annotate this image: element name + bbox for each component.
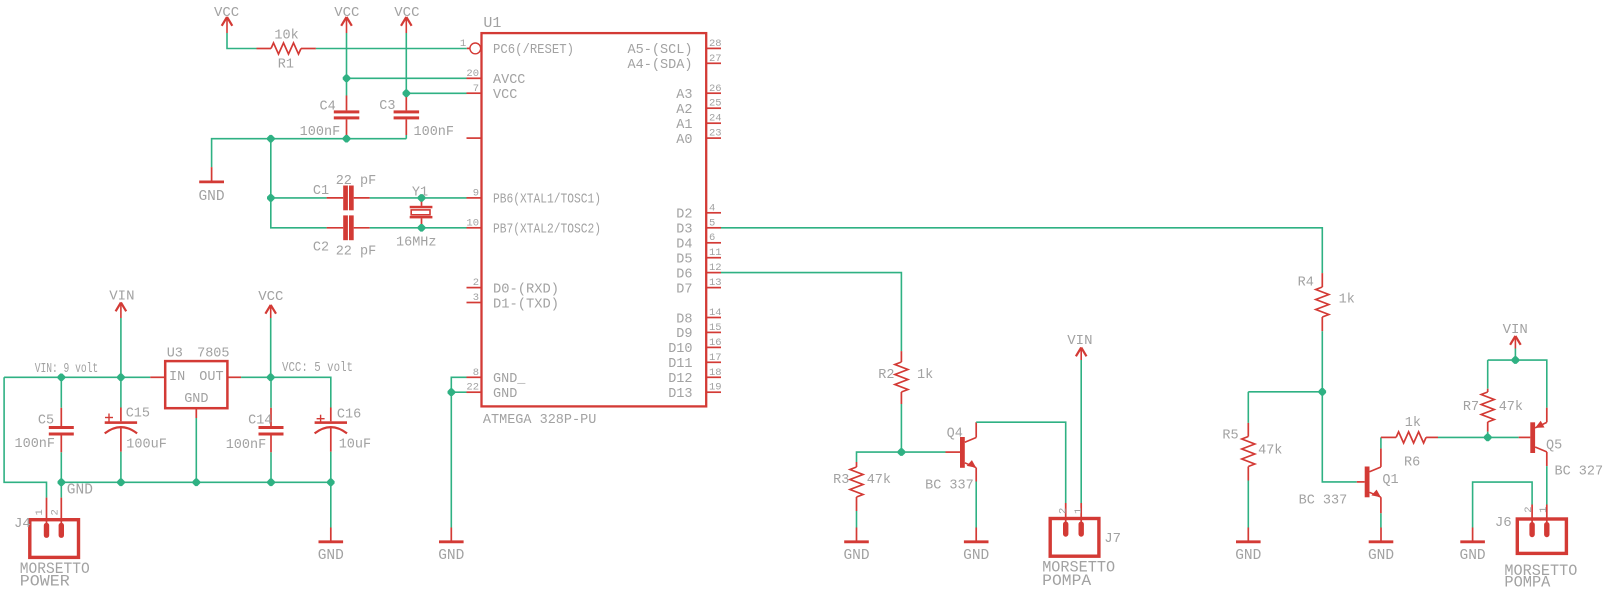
svg-text:PC6(/RESET): PC6(/RESET) (493, 43, 574, 58)
svg-text:VCC: VCC (334, 5, 359, 21)
svg-text:POWER: POWER (20, 573, 70, 591)
svg-text:C14: C14 (248, 414, 272, 429)
svg-text:D2: D2 (676, 208, 692, 223)
svg-text:C1: C1 (313, 184, 329, 199)
svg-text:R2: R2 (878, 368, 894, 383)
svg-text:GND_: GND_ (493, 372, 526, 387)
svg-text:D7: D7 (676, 282, 692, 297)
svg-text:GND: GND (843, 548, 869, 564)
svg-text:20: 20 (466, 68, 479, 80)
svg-text:PB6(XTAL1/TOSC1): PB6(XTAL1/TOSC1) (493, 193, 601, 208)
svg-text:25: 25 (709, 98, 722, 110)
svg-text:12: 12 (709, 262, 722, 274)
svg-text:GND: GND (67, 483, 93, 499)
svg-text:100nF: 100nF (414, 125, 455, 140)
svg-text:C15: C15 (126, 407, 150, 422)
svg-text:7805: 7805 (197, 347, 229, 362)
svg-text:GND: GND (1460, 548, 1486, 564)
svg-text:17: 17 (709, 352, 722, 364)
svg-text:10k: 10k (274, 29, 298, 44)
svg-text:1k: 1k (1405, 416, 1421, 431)
svg-text:VCC: VCC (493, 88, 517, 103)
svg-text:47k: 47k (1258, 444, 1282, 459)
svg-text:VIN: VIN (1503, 322, 1528, 338)
svg-text:10uF: 10uF (339, 437, 371, 452)
svg-text:2: 2 (49, 509, 61, 515)
svg-text:GND: GND (198, 189, 224, 205)
svg-text:Q5: Q5 (1546, 438, 1562, 453)
svg-text:BC 337: BC 337 (1299, 494, 1348, 509)
svg-text:VCC: VCC (394, 5, 419, 21)
svg-text:1: 1 (34, 509, 46, 515)
svg-text:VIN: VIN (1067, 333, 1092, 349)
svg-text:6: 6 (709, 232, 715, 244)
svg-text:D13: D13 (668, 387, 692, 402)
svg-text:8: 8 (473, 367, 479, 379)
svg-text:GND: GND (963, 548, 989, 564)
svg-text:10: 10 (466, 217, 479, 229)
svg-text:4: 4 (709, 202, 715, 214)
svg-text:OUT: OUT (199, 370, 223, 385)
svg-text:GND: GND (318, 548, 344, 564)
svg-text:D1-(TXD): D1-(TXD) (493, 297, 559, 312)
svg-text:2: 2 (1057, 508, 1069, 514)
svg-text:Q1: Q1 (1382, 473, 1398, 488)
svg-text:1: 1 (1073, 508, 1085, 514)
svg-text:VCC: VCC (258, 289, 283, 305)
svg-text:C4: C4 (319, 100, 335, 115)
svg-text:GND: GND (184, 392, 208, 407)
svg-text:A0: A0 (676, 133, 692, 148)
svg-text:VIN: VIN (109, 289, 134, 305)
svg-text:J7: J7 (1104, 531, 1121, 547)
svg-text:D5: D5 (676, 253, 692, 268)
svg-text:2: 2 (473, 277, 479, 289)
svg-text:VCC: VCC (214, 5, 239, 21)
svg-text:D4: D4 (676, 238, 692, 253)
svg-text:C5: C5 (38, 414, 54, 429)
svg-text:J6: J6 (1495, 515, 1512, 531)
svg-text:R4: R4 (1298, 276, 1314, 291)
svg-text:R1: R1 (278, 58, 294, 73)
svg-text:23: 23 (709, 128, 722, 140)
svg-text:D6: D6 (676, 267, 692, 282)
svg-text:R7: R7 (1463, 400, 1479, 415)
svg-text:16: 16 (709, 337, 722, 349)
svg-text:GND: GND (1235, 548, 1261, 564)
svg-text:A5-(SCL): A5-(SCL) (628, 43, 693, 58)
svg-text:D9: D9 (676, 327, 692, 342)
svg-text:14: 14 (709, 307, 722, 319)
svg-text:POMPA: POMPA (1504, 574, 1551, 592)
svg-text:D8: D8 (676, 312, 692, 327)
svg-text:U3: U3 (167, 347, 183, 362)
svg-text:J4: J4 (14, 516, 31, 532)
svg-text:R6: R6 (1404, 455, 1420, 470)
svg-text:1: 1 (1538, 506, 1550, 512)
svg-text:AVCC: AVCC (493, 73, 525, 88)
svg-text:D3: D3 (676, 223, 692, 238)
svg-text:C3: C3 (379, 99, 395, 114)
svg-text:13: 13 (709, 277, 722, 289)
svg-text:100nF: 100nF (15, 437, 56, 452)
svg-text:U1: U1 (483, 15, 501, 32)
svg-text:16MHz: 16MHz (396, 236, 437, 251)
svg-text:D10: D10 (668, 342, 692, 357)
svg-text:A1: A1 (676, 118, 692, 133)
svg-text:IN: IN (169, 370, 185, 385)
svg-text:19: 19 (709, 382, 722, 394)
svg-text:BC 337: BC 337 (925, 479, 974, 494)
svg-text:22 pF: 22 pF (336, 245, 377, 260)
svg-text:7: 7 (473, 83, 479, 95)
svg-text:9: 9 (473, 187, 479, 199)
svg-text:C16: C16 (337, 407, 361, 422)
svg-text:A4-(SDA): A4-(SDA) (628, 58, 693, 73)
svg-text:3: 3 (473, 292, 479, 304)
svg-text:24: 24 (709, 113, 722, 125)
svg-text:R3: R3 (833, 473, 849, 488)
svg-text:D0-(RXD): D0-(RXD) (493, 282, 559, 297)
svg-text:VCC: 5 volt: VCC: 5 volt (282, 361, 353, 376)
svg-text:15: 15 (709, 322, 722, 334)
svg-text:C2: C2 (313, 241, 329, 256)
svg-text:GND: GND (1368, 548, 1394, 564)
svg-text:1k: 1k (1339, 292, 1355, 307)
svg-text:5: 5 (709, 217, 715, 229)
svg-text:11: 11 (709, 247, 722, 259)
svg-text:D11: D11 (668, 357, 692, 372)
svg-text:26: 26 (709, 83, 722, 95)
svg-text:18: 18 (709, 367, 722, 379)
svg-text:BC 327: BC 327 (1555, 465, 1604, 480)
svg-text:A2: A2 (676, 103, 692, 118)
svg-text:A3: A3 (676, 88, 692, 103)
svg-text:47k: 47k (867, 473, 891, 488)
svg-text:2: 2 (1523, 506, 1535, 512)
svg-text:GND: GND (438, 548, 464, 564)
svg-text:27: 27 (709, 53, 722, 65)
svg-text:ATMEGA 328P-PU: ATMEGA 328P-PU (483, 413, 596, 428)
svg-text:1k: 1k (917, 368, 933, 383)
svg-text:100uF: 100uF (126, 438, 167, 453)
svg-text:22: 22 (466, 382, 479, 394)
svg-text:PB7(XTAL2/TOSC2): PB7(XTAL2/TOSC2) (493, 223, 601, 238)
svg-text:Q4: Q4 (947, 427, 963, 442)
svg-text:R5: R5 (1222, 428, 1238, 443)
svg-text:GND: GND (493, 387, 517, 402)
svg-text:POMPA: POMPA (1042, 572, 1092, 590)
svg-text:47k: 47k (1499, 400, 1523, 415)
svg-text:D12: D12 (668, 372, 692, 387)
svg-text:22 pF: 22 pF (336, 174, 377, 189)
svg-text:VIN: 9 volt: VIN: 9 volt (35, 362, 98, 377)
svg-text:28: 28 (709, 38, 722, 50)
svg-text:100nF: 100nF (226, 438, 267, 453)
